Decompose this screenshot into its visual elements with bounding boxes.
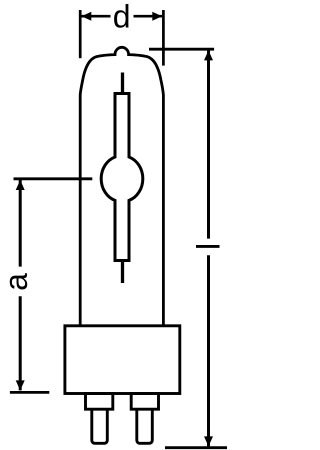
ceramic base block <box>65 326 180 394</box>
svg-text:l: l <box>190 243 226 250</box>
dimension d: right arrowhead <box>152 12 162 21</box>
pin 1 collar (left) <box>86 394 113 410</box>
top lead wire <box>121 73 124 94</box>
dimension a: line upper segment <box>19 180 22 267</box>
bottom lead wire <box>121 261 124 284</box>
dimension l: line lower segment <box>207 255 210 446</box>
pin 2 shaft (right) <box>137 409 153 443</box>
dimension l: bottom reference line <box>165 446 227 449</box>
dimension d: right extension tick <box>162 10 165 66</box>
dimension d: line right segment <box>134 15 163 18</box>
lamp outer envelope (quartz tube with domed top and nipple) <box>80 47 163 326</box>
dimension l: bottom arrowhead <box>204 436 213 446</box>
pin 1 shaft (left) <box>92 409 108 443</box>
arc tube capsule (inner burner with elliptical bulge) <box>101 94 143 261</box>
dimension d: left extension tick <box>79 10 82 58</box>
dimension l: line upper segment <box>207 50 210 238</box>
dimension a: bottom reference tick (base bottom plane) <box>10 391 49 394</box>
dimension a: bottom arrowhead <box>16 380 25 390</box>
dimension l: top arrowhead <box>204 50 213 60</box>
dimension l: top reference line <box>149 48 214 51</box>
pin 2 collar (right) <box>131 394 158 410</box>
dimension d: line left segment <box>82 15 111 18</box>
dimension a: top arrowhead <box>16 180 25 190</box>
svg-text:a: a <box>0 273 34 291</box>
dimension d: left arrowhead <box>82 12 92 21</box>
dimension a: line lower segment <box>19 296 22 390</box>
dimension a: top reference line (light center) <box>14 177 93 180</box>
svg-text:d: d <box>113 0 131 35</box>
